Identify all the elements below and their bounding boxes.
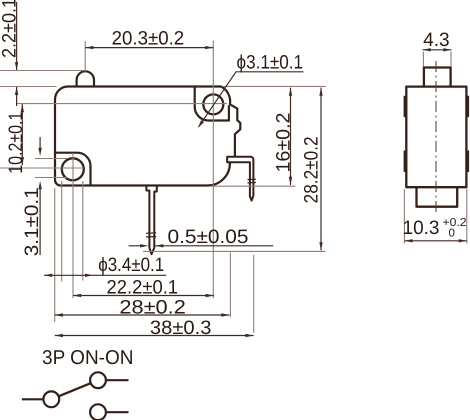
- svg-text:20.3±0.2: 20.3±0.2: [112, 28, 185, 50]
- node upper contact: [90, 372, 106, 388]
- center pin break ticks: [146, 233, 156, 237]
- label phi3.4 leader: [44, 274, 166, 276]
- svg-text:ϕ3.4±0.1: ϕ3.4±0.1: [98, 254, 164, 276]
- svg-text:2.2±0.1: 2.2±0.1: [0, 0, 21, 58]
- wire common left: [22, 398, 43, 400]
- svg-text:22.2±0.1: 22.2±0.1: [107, 276, 179, 298]
- side body: [406, 87, 466, 188]
- boss around top-right mounting hole: [195, 87, 229, 121]
- side ribs left: [404, 96, 407, 172]
- dim 0.5 arrows and leader: [129, 245, 274, 247]
- wire lever arm: [59, 383, 91, 396]
- mounting hole bottom-left: [62, 158, 84, 180]
- ext line hole center down: [72, 153, 74, 298]
- ref line hole bottom tangent: [35, 177, 67, 179]
- dim 38 line: [55, 335, 254, 337]
- svg-text:38±0.3: 38±0.3: [150, 317, 212, 339]
- svg-text:10.3: 10.3: [403, 217, 440, 239]
- ref line hole top tangent: [35, 158, 67, 160]
- common terminal (right, bent down): [227, 157, 253, 201]
- side ribs right: [466, 96, 469, 172]
- label phi3.1 leader: [199, 72, 304, 127]
- ext line button center: [84, 41, 86, 72]
- svg-text:3.1±0.1: 3.1±0.1: [21, 187, 43, 256]
- ref line body bottom right: [211, 185, 296, 187]
- dim 22.2 line: [73, 295, 214, 297]
- dim 2.2 vertical: [16, 2, 18, 106]
- ext line hole left tangent down: [61, 181, 63, 282]
- ext line body left edge down: [54, 188, 56, 322]
- svg-text:0: 0: [449, 228, 455, 240]
- center terminal pin: [146, 186, 156, 255]
- node lower contact: [90, 404, 106, 420]
- svg-text:16±0.2: 16±0.2: [272, 113, 294, 173]
- ext line hole right tangent down: [82, 181, 84, 281]
- ref line body top right: [222, 85, 326, 87]
- ext line terminal outer down: [253, 255, 255, 333]
- svg-text:4.3: 4.3: [423, 29, 450, 51]
- dim 10.3 line: [404, 240, 466, 242]
- svg-text:3P ON-ON: 3P ON-ON: [42, 347, 134, 369]
- mounting hole top-right: [203, 94, 223, 114]
- ext line body right down: [229, 253, 231, 318]
- dim 20.3 line: [85, 47, 213, 49]
- node common pole: [43, 391, 59, 407]
- right terminal break ticks: [248, 179, 256, 183]
- dim 4.3 line: [423, 49, 452, 51]
- side button: [424, 68, 451, 87]
- svg-text:28.2±0.2: 28.2±0.2: [300, 136, 322, 203]
- ref line button top: [0, 70, 84, 72]
- ref line pin tip: [143, 250, 326, 252]
- switch body outline: [55, 87, 240, 186]
- boss around bottom-left mounting hole: [55, 153, 91, 186]
- ext line hole center vertical: [212, 41, 214, 299]
- svg-text:0.5±0.05: 0.5±0.05: [168, 226, 249, 248]
- button (plunger): [77, 71, 94, 86]
- ext lines side button: [423, 52, 451, 67]
- dim 3.1 vertical: [39, 137, 41, 255]
- side bottom block: [417, 187, 458, 207]
- dim 16 vertical: [290, 88, 292, 185]
- dim 28 line: [55, 314, 230, 316]
- ref line body top left: [0, 86, 57, 88]
- side centerline: [435, 61, 437, 212]
- ref line hole center horizontal: [17, 103, 227, 105]
- dim 10.2 vertical: [21, 104, 23, 165]
- ref line lower hole center: [0, 167, 84, 169]
- svg-text:ϕ3.1±0.1: ϕ3.1±0.1: [237, 52, 304, 74]
- dim 28.2 vertical: [320, 88, 322, 251]
- svg-text:28±0.2: 28±0.2: [119, 296, 186, 318]
- wire lower contact: [106, 411, 128, 413]
- svg-text:10.2±0.1: 10.2±0.1: [5, 112, 27, 174]
- wire upper contact: [106, 379, 128, 381]
- ext lines side body width: [404, 189, 466, 244]
